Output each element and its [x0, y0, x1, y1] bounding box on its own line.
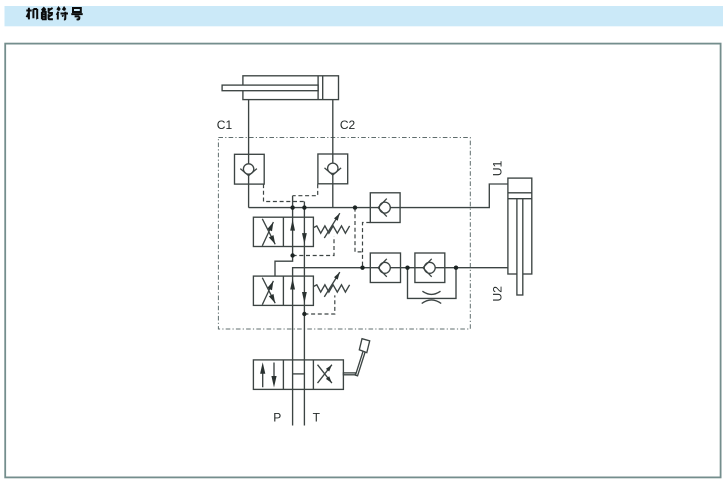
- svg-text:P: P: [273, 411, 281, 425]
- svg-text:U1: U1: [490, 160, 504, 176]
- svg-text:C1: C1: [217, 118, 233, 132]
- svg-text:C2: C2: [340, 118, 356, 132]
- svg-text:T: T: [313, 411, 321, 425]
- svg-text:U2: U2: [490, 286, 504, 302]
